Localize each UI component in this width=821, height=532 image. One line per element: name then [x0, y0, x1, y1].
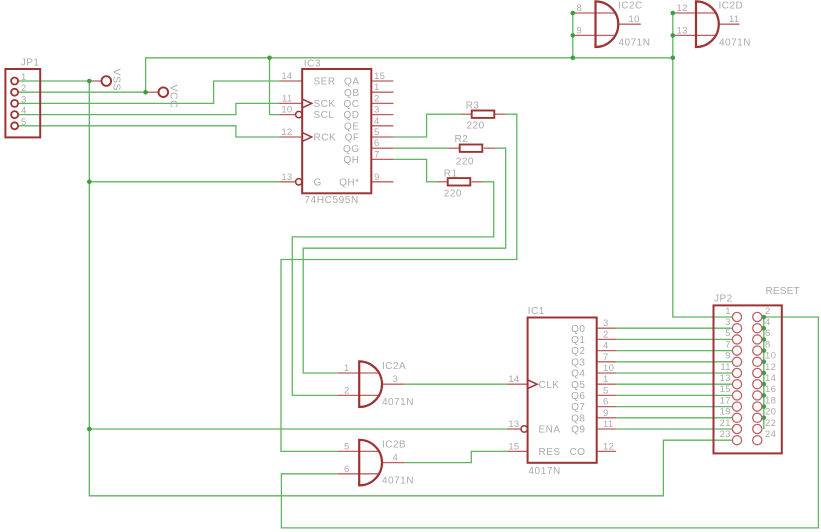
svg-text:10: 10	[765, 351, 776, 362]
svg-text:5: 5	[344, 441, 350, 452]
wire IC1 Q4 to JP2	[616, 372, 732, 374]
wire IC1 Q1 to JP2	[616, 338, 732, 340]
svg-text:3: 3	[393, 374, 399, 385]
junction JP2 pin16	[762, 393, 767, 398]
junction JP2 pin20	[762, 416, 767, 421]
svg-text:2: 2	[344, 385, 350, 396]
OR gate IC2A body	[359, 361, 382, 407]
IC1 pin13 ENA stub	[507, 428, 521, 430]
svg-text:15: 15	[720, 384, 731, 395]
svg-text:4: 4	[765, 317, 771, 328]
svg-text:JP2: JP2	[714, 294, 733, 305]
svg-text:12: 12	[765, 362, 776, 373]
wire IC1 Q7 to JP2	[616, 406, 732, 408]
IC2B pin6 stub	[338, 473, 379, 475]
svg-text:8: 8	[765, 339, 771, 350]
svg-text:1: 1	[725, 306, 731, 317]
svg-text:QH*: QH*	[339, 177, 359, 188]
junction JP2 pin18	[762, 404, 767, 409]
svg-text:VSS: VSS	[111, 69, 123, 92]
IC2C pin10 output stub	[618, 23, 641, 25]
OR gate IC2C body	[596, 1, 619, 47]
svg-text:Q5: Q5	[571, 380, 585, 391]
svg-text:QF: QF	[345, 133, 360, 144]
svg-text:CLK: CLK	[539, 380, 560, 391]
svg-text:4071N: 4071N	[382, 475, 414, 486]
svg-text:Q4: Q4	[571, 369, 585, 380]
resistor R2	[460, 145, 483, 152]
svg-text:4: 4	[21, 106, 27, 117]
svg-text:2: 2	[603, 329, 609, 340]
junction JP2 pin4	[762, 326, 767, 331]
svg-text:Q0: Q0	[571, 324, 585, 335]
svg-text:1: 1	[374, 82, 380, 93]
svg-text:14: 14	[765, 373, 776, 384]
svg-text:2: 2	[21, 83, 27, 94]
junction VCC/SCL branch	[267, 56, 272, 61]
svg-text:12: 12	[281, 127, 292, 138]
junction VSS/G branch	[87, 180, 92, 185]
svg-text:10: 10	[281, 105, 292, 116]
R3 left lead	[460, 113, 471, 115]
wire VSS branch to IC1 ENA	[89, 428, 507, 430]
svg-text:13: 13	[677, 25, 688, 36]
wire IC1 Q8 to JP2	[616, 417, 732, 419]
svg-text:11: 11	[720, 362, 730, 373]
wire VCC: IC2D input column vertical down to JP2 pin1	[673, 13, 732, 317]
wire RESET: JP2 right column vertical	[763, 317, 765, 429]
svg-text:1: 1	[344, 363, 350, 374]
IC3 QG stub	[371, 147, 393, 149]
svg-text:74HC595N: 74HC595N	[305, 195, 359, 206]
svg-text:13: 13	[720, 373, 731, 384]
wire IC3 QH to R1	[393, 159, 436, 181]
svg-text:5: 5	[374, 127, 380, 138]
svg-text:IC2B: IC2B	[382, 439, 406, 450]
IC1 4017N counter body	[521, 318, 597, 463]
junction VSS/ENA branch	[87, 427, 92, 432]
wire IC1 Q3 to JP2	[616, 361, 732, 363]
svg-text:19: 19	[720, 407, 731, 418]
svg-text:6: 6	[603, 397, 609, 408]
svg-text:14: 14	[281, 71, 292, 82]
wire VSS branch to IC3 G	[89, 181, 280, 183]
OR gate IC2D body	[696, 1, 719, 47]
svg-text:12: 12	[677, 3, 688, 14]
R2 right lead	[484, 147, 495, 149]
pin stub VSS	[89, 80, 101, 82]
junction IC2C pin9	[571, 33, 576, 38]
wire IC3 QG to R2	[393, 147, 448, 149]
svg-text:6: 6	[765, 328, 771, 339]
IC1 Q8 stub	[597, 417, 617, 419]
svg-text:QC: QC	[344, 99, 360, 110]
IC3 pin 10 SCL stub	[280, 114, 296, 116]
svg-text:4: 4	[374, 116, 380, 127]
wire R3 to IC2B pin5	[281, 114, 517, 451]
junction VCC	[143, 90, 148, 95]
svg-text:4071N: 4071N	[719, 38, 751, 49]
svg-text:2: 2	[765, 306, 771, 317]
svg-text:R3: R3	[466, 100, 480, 111]
svg-text:24: 24	[765, 429, 776, 440]
junction JP2 pin14	[762, 382, 767, 387]
svg-text:5: 5	[725, 328, 731, 339]
junction IC2C column bottom	[571, 56, 576, 61]
wire IC1 Q0 to JP2	[616, 327, 732, 329]
junction JP2 pin6	[762, 337, 767, 342]
IC2A pin2 stub	[338, 394, 379, 396]
IC1 Q6 stub	[597, 394, 617, 396]
IC1 pin12 CO stub	[597, 450, 617, 452]
svg-text:3: 3	[374, 105, 380, 116]
svg-text:3: 3	[603, 318, 609, 329]
svg-text:4: 4	[603, 341, 609, 352]
svg-text:12: 12	[603, 441, 614, 452]
svg-text:QD: QD	[344, 110, 360, 121]
svg-text:11: 11	[603, 419, 613, 430]
junction IC2D column top	[671, 11, 676, 16]
svg-text:1: 1	[21, 72, 27, 83]
svg-text:IC2D: IC2D	[719, 1, 744, 12]
wire IC1 Q9 to JP2	[616, 428, 732, 430]
svg-text:220: 220	[467, 121, 485, 132]
junction JP2 pin10	[762, 360, 767, 365]
svg-text:220: 220	[456, 157, 474, 168]
supply VSS	[102, 76, 112, 86]
svg-text:23: 23	[720, 429, 731, 440]
svg-text:22: 22	[765, 418, 776, 429]
wire VSS: JP1 pin1 to VSS junction	[18, 80, 89, 82]
svg-text:Q7: Q7	[571, 402, 585, 413]
svg-text:R2: R2	[455, 134, 469, 145]
svg-text:Q8: Q8	[571, 413, 585, 424]
IC2B pin5 stub	[338, 450, 379, 452]
svg-text:IC3: IC3	[304, 58, 321, 69]
IC1 Q2 stub	[597, 350, 617, 352]
svg-text:21: 21	[720, 418, 731, 429]
OR gate IC2B body	[359, 440, 382, 486]
svg-text:IC1: IC1	[528, 306, 545, 317]
IC3 pin 11 SCK stub	[280, 102, 303, 104]
R1 right lead	[472, 181, 483, 183]
svg-text:220: 220	[444, 189, 462, 200]
svg-text:SCL: SCL	[314, 110, 335, 121]
IC1 Q7 stub	[597, 406, 617, 408]
svg-text:5: 5	[603, 385, 609, 396]
IC2C pin8 stub	[573, 12, 616, 14]
svg-text:8: 8	[577, 3, 583, 14]
junction JP1 pin1/VSS	[87, 79, 92, 84]
svg-text:13: 13	[508, 419, 519, 430]
svg-text:11: 11	[282, 93, 292, 104]
junction JP2 pin8	[762, 348, 767, 353]
wire VCC: JP1 pin2 to VCC junction	[18, 91, 146, 93]
supply VCC	[159, 87, 169, 97]
svg-text:Q3: Q3	[571, 357, 585, 368]
wire RESET: JP2 pin2 around board to IC2B pin6	[281, 317, 818, 528]
svg-text:IC2C: IC2C	[618, 1, 643, 12]
IC3 QH stub	[371, 158, 393, 160]
pin stub VCC	[146, 91, 159, 93]
svg-text:9: 9	[725, 351, 731, 362]
svg-text:9: 9	[577, 25, 583, 36]
IC2D pin12 stub	[673, 12, 716, 14]
svg-text:SER: SER	[314, 77, 336, 88]
wire JP1 pin4 to IC3 SCK	[18, 103, 280, 114]
connector JP1	[5, 69, 40, 137]
IC2D pin13 stub	[673, 34, 716, 36]
junction JP2 pin2	[762, 315, 767, 320]
svg-text:9: 9	[603, 408, 609, 419]
svg-text:10: 10	[629, 14, 640, 25]
svg-text:QG: QG	[343, 144, 360, 155]
IC3 QE stub	[371, 125, 393, 127]
svg-text:Q1: Q1	[571, 335, 585, 346]
svg-text:Q9: Q9	[571, 425, 585, 436]
svg-text:11: 11	[729, 14, 739, 25]
wire JP1 pin5 to IC3 RCK	[18, 126, 280, 137]
wire IC3 QF to R3	[393, 114, 460, 137]
wire IC1 Q2 to JP2	[616, 350, 732, 352]
IC2C pin9 stub	[573, 34, 616, 36]
svg-text:7: 7	[603, 352, 609, 363]
IC3 QB stub	[371, 91, 393, 93]
svg-text:7: 7	[725, 339, 731, 350]
svg-text:QE: QE	[344, 121, 359, 132]
svg-text:SCK: SCK	[314, 99, 336, 110]
wire R1 to IC2A pin2	[292, 182, 493, 396]
IC2A pin1 stub	[338, 372, 379, 374]
svg-text:4017N: 4017N	[528, 466, 560, 477]
IC1 Q1 stub	[597, 338, 617, 340]
wire VCC branch down to IC3 SCL	[270, 58, 281, 115]
junction JP2 pin12	[762, 371, 767, 376]
IC3 pin 12 RCK stub	[280, 136, 303, 138]
svg-text:3: 3	[21, 94, 27, 105]
wire VCC: vertical up and top horizontal	[146, 58, 673, 92]
svg-text:IC2A: IC2A	[382, 361, 406, 372]
wire JP1 pin3 to IC3 SER	[18, 81, 280, 103]
svg-text:6: 6	[344, 464, 350, 475]
svg-text:QA: QA	[344, 77, 359, 88]
svg-text:VCC: VCC	[168, 85, 180, 109]
resistor R1	[448, 178, 471, 185]
wire IC1 Q5 to JP2	[616, 383, 732, 385]
svg-text:4071N: 4071N	[382, 397, 414, 408]
svg-text:17: 17	[720, 395, 731, 406]
IC2B pin4 output stub	[382, 462, 405, 464]
svg-text:QB: QB	[344, 88, 359, 99]
IC1 Q0 stub	[597, 327, 617, 329]
R2 left lead	[448, 147, 459, 149]
connector JP2	[714, 305, 782, 453]
wire IC2A output to IC1 CLK	[405, 383, 507, 385]
svg-text:15: 15	[508, 441, 519, 452]
svg-text:RCK: RCK	[314, 133, 337, 144]
IC3 74HC595N shift register body	[296, 69, 372, 193]
wire R2 to IC2A pin1	[303, 148, 506, 373]
IC1 Q5 stub	[597, 383, 617, 385]
wire IC2B output to IC1 RES	[405, 451, 507, 462]
svg-text:CO: CO	[570, 447, 586, 458]
IC2A pin3 output stub	[382, 383, 405, 385]
svg-text:Q6: Q6	[571, 391, 585, 402]
svg-text:16: 16	[765, 384, 776, 395]
svg-text:4: 4	[393, 453, 399, 464]
svg-text:18: 18	[765, 395, 776, 406]
IC1 Q3 stub	[597, 361, 617, 363]
IC3 QF stub	[371, 136, 393, 138]
svg-text:3: 3	[725, 317, 731, 328]
svg-text:15: 15	[374, 71, 385, 82]
svg-text:1: 1	[603, 374, 609, 385]
IC2D pin11 output stub	[719, 23, 740, 25]
R1 left lead	[436, 181, 447, 183]
IC3 QH* stub	[371, 181, 393, 183]
svg-text:2: 2	[374, 93, 380, 104]
svg-text:5: 5	[21, 117, 27, 128]
junction IC2C column top	[571, 11, 576, 16]
IC3 pin 14 SER stub	[280, 80, 303, 82]
svg-text:ENA: ENA	[539, 425, 561, 436]
wire VCC: IC2C input column vertical	[572, 13, 574, 58]
junction IC2D column	[671, 56, 676, 61]
svg-text:14: 14	[508, 374, 519, 385]
IC3 QD stub	[371, 114, 393, 116]
svg-text:QH: QH	[344, 155, 360, 166]
IC1 pin15 RES stub	[507, 450, 528, 452]
svg-text:RES: RES	[539, 447, 561, 458]
svg-text:4071N: 4071N	[619, 38, 651, 49]
svg-text:JP1: JP1	[21, 57, 40, 68]
svg-text:10: 10	[603, 363, 614, 374]
IC1 Q9 stub	[597, 428, 617, 430]
wire IC1 Q6 to JP2	[616, 394, 732, 396]
IC3 QC stub	[371, 102, 393, 104]
R3 right lead	[494, 113, 505, 115]
svg-text:R1: R1	[444, 169, 458, 180]
junction IC2D pin13	[671, 33, 676, 38]
svg-text:20: 20	[765, 407, 776, 418]
svg-text:9: 9	[374, 172, 380, 183]
svg-text:G: G	[314, 177, 322, 188]
IC1 pin14 CLK stub	[507, 383, 528, 385]
wire VSS: main vertical and run to JP2 pin23	[89, 81, 732, 496]
resistor R3	[472, 111, 495, 118]
svg-text:Q2: Q2	[571, 346, 585, 357]
svg-text:RESET: RESET	[766, 286, 800, 297]
IC3 pin 13 G stub	[280, 181, 296, 183]
IC1 Q4 stub	[597, 372, 617, 374]
svg-text:13: 13	[281, 172, 292, 183]
svg-text:7: 7	[374, 149, 380, 160]
svg-text:6: 6	[374, 138, 380, 149]
IC3 QA stub	[371, 80, 393, 82]
